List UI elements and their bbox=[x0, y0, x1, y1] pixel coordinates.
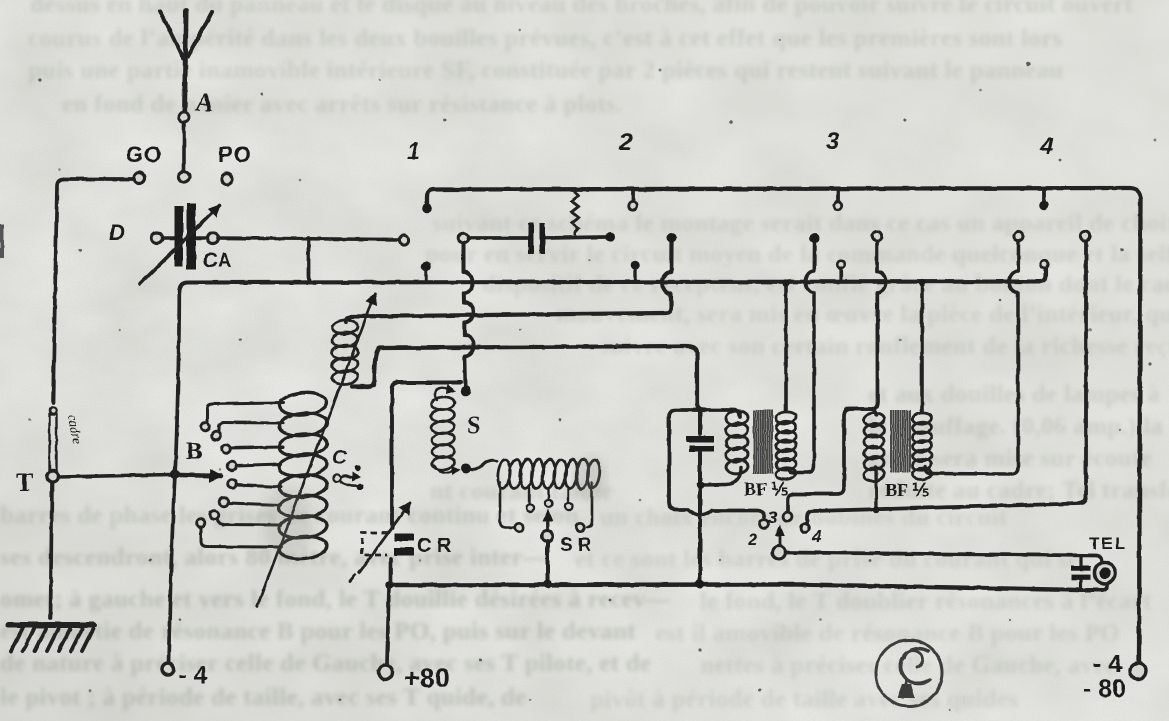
terminal 4 contact bbox=[801, 524, 810, 533]
selector contact 1 bbox=[201, 403, 283, 431]
label PO bbox=[218, 142, 252, 167]
plate stub tube 3 bbox=[834, 189, 842, 210]
stamp glyph bbox=[897, 649, 930, 698]
frame antenna cadre bbox=[50, 407, 57, 470]
terminal T bbox=[47, 471, 58, 482]
tap C dot bbox=[355, 465, 361, 471]
wire CR to +80 bbox=[387, 559, 391, 664]
svg-text:A: A bbox=[194, 88, 213, 117]
svg-text:2: 2 bbox=[618, 129, 633, 156]
svg-text:C R: C R bbox=[417, 535, 452, 557]
label 3 bbox=[826, 128, 840, 155]
tap C contact bbox=[333, 472, 361, 486]
terminal PO bbox=[222, 174, 233, 185]
bypass capacitor C2 top lead bbox=[698, 410, 702, 434]
svg-text:T: T bbox=[16, 468, 33, 497]
junction SR on bottom rail bbox=[543, 580, 552, 589]
svg-text:S R: S R bbox=[560, 535, 592, 556]
antenna mast bbox=[184, 11, 186, 172]
antenna binding post bbox=[179, 172, 190, 183]
svg-text:- 4: - 4 bbox=[1093, 650, 1122, 678]
tuning arrow through coil bbox=[257, 294, 376, 607]
BF2 core bbox=[891, 410, 910, 472]
plate terminal tube 3 bbox=[872, 231, 881, 240]
svg-text:CA: CA bbox=[203, 250, 232, 272]
SR tap 1 bbox=[526, 488, 533, 512]
grid condenser lead left bbox=[459, 233, 527, 243]
selector contact 6 bbox=[220, 498, 281, 507]
label terminal 2 bbox=[747, 530, 758, 549]
label -80 right bbox=[1083, 675, 1126, 703]
filament rail 1 bbox=[179, 269, 1046, 292]
capacitor CA left lead bbox=[152, 233, 175, 244]
selector contact 7 bbox=[210, 511, 281, 525]
svg-text:- 4: - 4 bbox=[179, 662, 208, 689]
anode top rail bbox=[427, 188, 1141, 662]
coupling coil primary bbox=[331, 319, 358, 386]
svg-text:4: 4 bbox=[811, 527, 822, 546]
coil SR right end bbox=[587, 483, 592, 528]
rail 3 wire bbox=[374, 346, 704, 410]
svg-text:+80: +80 bbox=[404, 663, 450, 693]
wire BF1 to terminal 2 bbox=[669, 410, 764, 517]
plate terminal tube 4 bbox=[1080, 231, 1089, 240]
tap C dot 2 bbox=[357, 484, 364, 491]
output wiper arrow bbox=[775, 524, 785, 545]
wire S to SR bbox=[470, 460, 497, 470]
BF2 primary bottom bbox=[874, 467, 878, 510]
svg-text:TEL: TEL bbox=[1089, 534, 1127, 553]
BF1 secondary bbox=[776, 411, 797, 480]
plate blob tube 1 bbox=[422, 204, 432, 214]
label cadre bbox=[65, 413, 85, 445]
SR contact left bbox=[515, 523, 523, 531]
ink smudge near coil bbox=[262, 488, 314, 556]
capacitor CA plates bbox=[175, 203, 197, 270]
bypass capacitor C2 bottom lead bbox=[698, 452, 702, 582]
node A terminal bbox=[179, 112, 189, 122]
terminal -4 bbox=[162, 663, 174, 675]
antenna branch left bbox=[160, 11, 183, 58]
label +80 bbox=[404, 663, 450, 693]
stamp circle bbox=[876, 640, 942, 706]
grid tip tube 2 bbox=[605, 232, 615, 242]
scan edge mark bbox=[0, 224, 4, 258]
ink smudge near SR bbox=[574, 456, 606, 500]
selector contact 5 bbox=[228, 480, 281, 489]
SR tap 3 bbox=[565, 488, 572, 510]
BF1 secondary bottom bbox=[789, 243, 815, 473]
svg-text:4: 4 bbox=[1039, 133, 1053, 160]
selector contact 4 bbox=[228, 462, 281, 471]
TEL bottom hook bbox=[1078, 584, 1107, 590]
svg-text:B: B bbox=[186, 438, 203, 465]
label -4 right bbox=[1093, 650, 1122, 678]
junction BF1 on bottom rail bbox=[696, 580, 705, 589]
svg-text:PO: PO bbox=[218, 142, 252, 167]
selector contact 3 bbox=[222, 445, 283, 454]
svg-text:C: C bbox=[332, 447, 347, 469]
grid tip tube 1 bbox=[399, 235, 408, 244]
label A bbox=[194, 88, 213, 117]
wire S junction to CR bbox=[392, 383, 461, 529]
label CR bbox=[417, 535, 452, 557]
svg-text:cadre: cadre bbox=[65, 413, 85, 445]
output wiper pivot bbox=[773, 546, 786, 559]
BF2 primary top bbox=[846, 409, 876, 415]
wire wiper to TEL bbox=[786, 553, 1103, 562]
wire -4 riser bbox=[169, 292, 180, 663]
svg-text:BF ⅕: BF ⅕ bbox=[885, 480, 929, 500]
BF2 secondary bbox=[912, 412, 932, 480]
capacitor CR fixed plate bbox=[362, 533, 387, 555]
junction BF2 primary on wire bbox=[873, 506, 880, 513]
filament stub tube 4 bbox=[1041, 261, 1049, 269]
antenna branch right bbox=[188, 12, 212, 57]
svg-text:BF ⅕: BF ⅕ bbox=[744, 479, 788, 499]
label C bbox=[332, 447, 347, 469]
TEL earphone bbox=[1095, 563, 1116, 584]
SR wiper arrow bbox=[543, 509, 553, 530]
svg-text:GO: GO bbox=[126, 142, 162, 167]
label 4 bbox=[1039, 133, 1053, 160]
BF2 primary bbox=[863, 412, 884, 482]
grid tip tube 4 bbox=[1014, 231, 1023, 240]
svg-text:1: 1 bbox=[407, 138, 420, 165]
coil S top arrow bbox=[435, 384, 456, 400]
BF1 primary bbox=[725, 410, 748, 475]
plate stub tube 2 bbox=[629, 189, 637, 210]
junction node S top bbox=[461, 386, 471, 396]
grid leak resistor bbox=[572, 190, 579, 236]
junction BF1 secondary on rail 1 bbox=[782, 279, 789, 286]
filament stub tube 2 bbox=[630, 261, 640, 281]
label B bbox=[186, 438, 203, 465]
coil S bbox=[431, 396, 455, 471]
label T bbox=[16, 468, 33, 497]
BF2 secondary top riser bbox=[920, 283, 924, 412]
wire T to ground bbox=[51, 483, 53, 618]
selector contact 8 bbox=[197, 519, 281, 547]
label SR bbox=[560, 535, 592, 556]
terminal 3 contact bbox=[783, 512, 792, 521]
SR wiper pivot bbox=[542, 531, 553, 542]
BF2 secondary bottom bbox=[925, 241, 1019, 474]
label D bbox=[109, 220, 125, 245]
label 2 bbox=[618, 129, 633, 156]
label BF2 bbox=[885, 480, 929, 500]
junction +80 riser bbox=[385, 581, 393, 589]
terminal GO bbox=[134, 173, 145, 184]
SR tap 2 bbox=[545, 488, 552, 507]
plate stub tube 4 bbox=[1039, 189, 1049, 210]
svg-text:3: 3 bbox=[826, 128, 840, 155]
terminal -4 -80 bbox=[1130, 663, 1146, 679]
label TEL bbox=[1089, 534, 1127, 553]
grid node dot right of tube 2 bbox=[667, 233, 677, 243]
grid tip tube 3 bbox=[810, 233, 820, 243]
BF1 core bbox=[754, 410, 772, 474]
coil SR bbox=[497, 459, 602, 489]
label 1 bbox=[407, 138, 420, 165]
terminal +80 bbox=[379, 666, 393, 680]
capacitor CR moving plates bbox=[394, 534, 414, 556]
capacitor CA right lead bbox=[197, 233, 219, 244]
arrow CR adjust bbox=[350, 503, 410, 581]
junction node S bottom bbox=[461, 464, 471, 474]
svg-text:3: 3 bbox=[768, 508, 778, 527]
BF1 secondary top riser bbox=[784, 283, 788, 411]
wire CA to grid of tube 1 bbox=[218, 238, 398, 240]
wire grid condenser to coil S bbox=[464, 243, 474, 387]
svg-text:2: 2 bbox=[747, 530, 758, 549]
selector wiper arrow B bbox=[180, 470, 221, 481]
coil S bottom arrow bbox=[434, 466, 461, 475]
label -4 bbox=[179, 662, 208, 689]
filament stub tube 3 bbox=[837, 261, 845, 281]
tuning coil L1 bbox=[278, 391, 328, 561]
wire T to selector junction bbox=[58, 475, 172, 478]
label terminal 3 bbox=[768, 508, 778, 527]
label CA bbox=[203, 250, 232, 272]
junction flick CA drop bbox=[309, 238, 317, 283]
BF1 primary bottom bbox=[697, 467, 742, 489]
TEL blocking capacitor bbox=[1072, 556, 1091, 590]
terminal 2 contact bbox=[760, 520, 769, 529]
ground symbol bbox=[8, 625, 94, 651]
grid condenser plates bbox=[528, 223, 545, 254]
rail 3 left drop to coupling coil bbox=[352, 381, 374, 387]
wire terminal 4 to plate tube 4 bbox=[807, 241, 1086, 524]
arrow CA adjust bbox=[140, 205, 220, 284]
label S bbox=[467, 413, 480, 439]
wire SR wiper to rail bbox=[546, 541, 550, 582]
filament stub tube 1 bbox=[421, 262, 431, 281]
rail 2 wire bbox=[346, 242, 672, 322]
junction BF2 secondary on rail 1 bbox=[918, 279, 925, 286]
wire plate tube2 branch top bbox=[704, 410, 740, 417]
svg-text:- 80: - 80 bbox=[1083, 675, 1126, 703]
coil SR left end bbox=[500, 483, 513, 528]
SR contact right bbox=[576, 523, 584, 531]
wire plate tube 3 feed bbox=[788, 241, 886, 511]
selector contact 2 bbox=[212, 423, 283, 441]
wire GO to frame antenna bbox=[53, 179, 134, 403]
junction node at selector bbox=[171, 470, 180, 479]
bypass capacitor C2 bbox=[686, 436, 714, 452]
svg-text:D: D bbox=[109, 220, 125, 245]
HT bottom rail bbox=[389, 585, 1078, 591]
label BF1 bbox=[744, 479, 788, 499]
label GO bbox=[126, 142, 162, 167]
label terminal 4 bbox=[811, 527, 822, 546]
grid condenser lead right bbox=[546, 237, 604, 238]
svg-text:S: S bbox=[467, 413, 480, 439]
